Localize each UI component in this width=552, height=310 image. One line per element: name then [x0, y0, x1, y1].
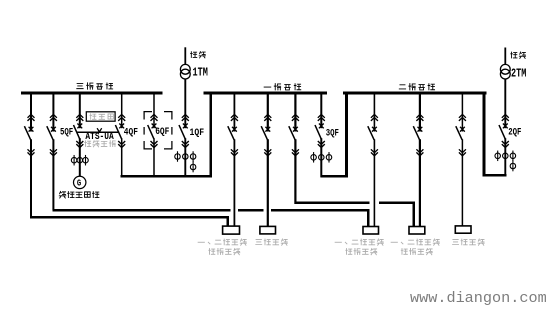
wire 4QF lower — [121, 138, 123, 177]
busbar 二段母线 (section II bus) — [343, 91, 487, 94]
wire bus I feeder 2 upper — [267, 94, 269, 132]
wire bus I feeder 1 lower — [233, 139, 235, 226]
load box 3 — [363, 227, 379, 235]
load box 1 — [223, 226, 240, 234]
wire bus II feeder 2 lower — [419, 139, 421, 226]
wire feeder B upper — [52, 94, 54, 132]
wire 1QF upper — [184, 79, 186, 128]
label 一、二级负荷 (box4) — [391, 239, 439, 245]
wire feeder A lower — [30, 139, 32, 217]
wire 2QF lower — [504, 138, 506, 176]
dashed box (spare 6QF) — [144, 112, 172, 149]
circuit breaker bus I feeder 3 — [289, 114, 299, 155]
wire trunk C (bus I feeder 3 to load box 4) — [294, 202, 369, 205]
circuit breaker bus I feeder 1 — [228, 114, 238, 155]
busbar 一段母线 (section I bus) — [204, 91, 328, 94]
wire feeder A upper — [30, 94, 32, 132]
wire riser to bus II (right) — [483, 93, 486, 176]
label 三级负荷 (box5) — [453, 239, 485, 245]
svg-text:5QF: 5QF — [60, 125, 73, 138]
label loads 一、二级负荷 (box1) — [198, 239, 246, 245]
wire incoming line 1 — [184, 47, 186, 65]
transformer 2TM — [500, 64, 510, 79]
transformer 1TM — [180, 64, 190, 79]
circuit breaker bus II feeder 2 — [413, 114, 423, 155]
label 二段母线 — [399, 84, 434, 90]
circuit breaker 4QF — [115, 114, 125, 147]
wire bus I feeder 3 upper — [294, 94, 296, 132]
wire 3QF tie lower — [320, 138, 322, 177]
wire bus I feeder 3 lower — [294, 139, 296, 204]
svg-text:www.diangon.com: www.diangon.com — [410, 289, 547, 307]
wire tie trunk to bus II riser — [320, 175, 348, 178]
wire 6QF upper — [153, 94, 155, 128]
wire riser to bus II (left) — [345, 93, 348, 177]
svg-text:3QF: 3QF — [326, 126, 339, 139]
wire bus II feeder 3 lower — [461, 139, 463, 226]
circuit breaker feeder B — [47, 114, 57, 155]
wire trunk A (feeder A to load box 1) — [30, 216, 229, 218]
wire incoming line 2 — [504, 48, 506, 65]
wire bus I feeder 2 lower — [267, 139, 269, 226]
label 三级负荷 (box2) — [256, 239, 288, 245]
wire trunk T1 (4QF/6QF/1TM junction to bus I riser) — [121, 175, 213, 178]
svg-text:1TM: 1TM — [193, 66, 208, 80]
node ATS pointer V — [97, 128, 102, 132]
label 三段母线 — [77, 83, 113, 89]
label 机械联锁 (mechanical interlock, gray) — [85, 141, 116, 147]
svg-text:ATS-UA: ATS-UA — [85, 130, 114, 142]
current transformers tie CTs (3x) — [311, 152, 332, 163]
wire ATS mechanical link 5QF-4QF — [77, 131, 119, 133]
load box 2 — [260, 226, 276, 234]
label 控制器 (controller, gray) — [90, 114, 113, 120]
current transformers generator CTs (3x) — [71, 155, 88, 166]
generator G (diesel) — [74, 176, 86, 189]
label 柴油发电机 (diesel generator) — [59, 191, 99, 198]
wire feeder B lower — [52, 139, 54, 210]
circuit breaker 6QF — [148, 114, 158, 147]
wire incoming 2 to bus II riser — [484, 174, 506, 177]
wire 3QF tie upper — [320, 94, 322, 128]
label 进线 (incoming) left — [191, 52, 206, 58]
wire bus II feeder 3 upper — [461, 94, 463, 132]
busbar 三段母线 (section III bus) — [21, 91, 163, 94]
current transformer (4th, incoming 2) — [510, 160, 516, 171]
circuit breaker bus I feeder 2 — [261, 114, 271, 155]
wire 2QF upper — [504, 79, 506, 128]
circuit breaker 5QF — [74, 114, 84, 147]
label 进线 (incoming) right — [511, 52, 526, 58]
load box 4 — [409, 227, 425, 235]
svg-text:2QF: 2QF — [508, 125, 521, 138]
controller box 控制器 — [86, 112, 115, 121]
circuit breaker 2QF — [499, 114, 509, 147]
wire 5QF upper — [79, 94, 81, 128]
wire bus I feeder 1 upper — [233, 94, 235, 132]
circuit breaker bus II feeder 3 — [456, 114, 466, 155]
svg-text:4QF: 4QF — [124, 125, 138, 137]
svg-text:1QF: 1QF — [190, 126, 205, 138]
label 消防负荷 (box3) — [346, 248, 377, 254]
load box 5 — [455, 226, 471, 233]
wire 6QF lower — [153, 138, 155, 177]
label 消防负荷 (box1) — [209, 248, 240, 254]
label 消防负荷 (box4) — [401, 248, 432, 254]
wire riser to bus I — [210, 93, 212, 177]
label 一段母线 — [264, 84, 301, 90]
wire 1QF lower — [184, 138, 186, 177]
wire bus II feeder 1 lower — [373, 139, 375, 226]
current transformer (4th, incoming 1) — [190, 161, 196, 172]
wire 4QF upper — [121, 94, 123, 128]
circuit breaker 1QF — [179, 114, 189, 147]
wire bus II feeder 2 upper — [419, 94, 421, 132]
label 一、二级负荷 (box3) — [335, 239, 383, 245]
wire trunk B (feeder B to load box 3) — [52, 209, 230, 211]
wire bus II feeder 1 upper — [373, 94, 375, 132]
svg-text:G: G — [77, 179, 81, 189]
current transformers incoming 2 CTs (3x) — [495, 151, 516, 162]
circuit breaker 3QF tie — [315, 114, 325, 147]
svg-text:6QF: 6QF — [155, 125, 169, 137]
circuit breaker bus II feeder 1 — [368, 114, 378, 155]
wire 5QF lower — [79, 138, 81, 176]
svg-text:2TM: 2TM — [511, 67, 526, 81]
current transformers incoming 1 CTs (3x) — [175, 151, 196, 162]
circuit breaker feeder A — [24, 114, 34, 155]
